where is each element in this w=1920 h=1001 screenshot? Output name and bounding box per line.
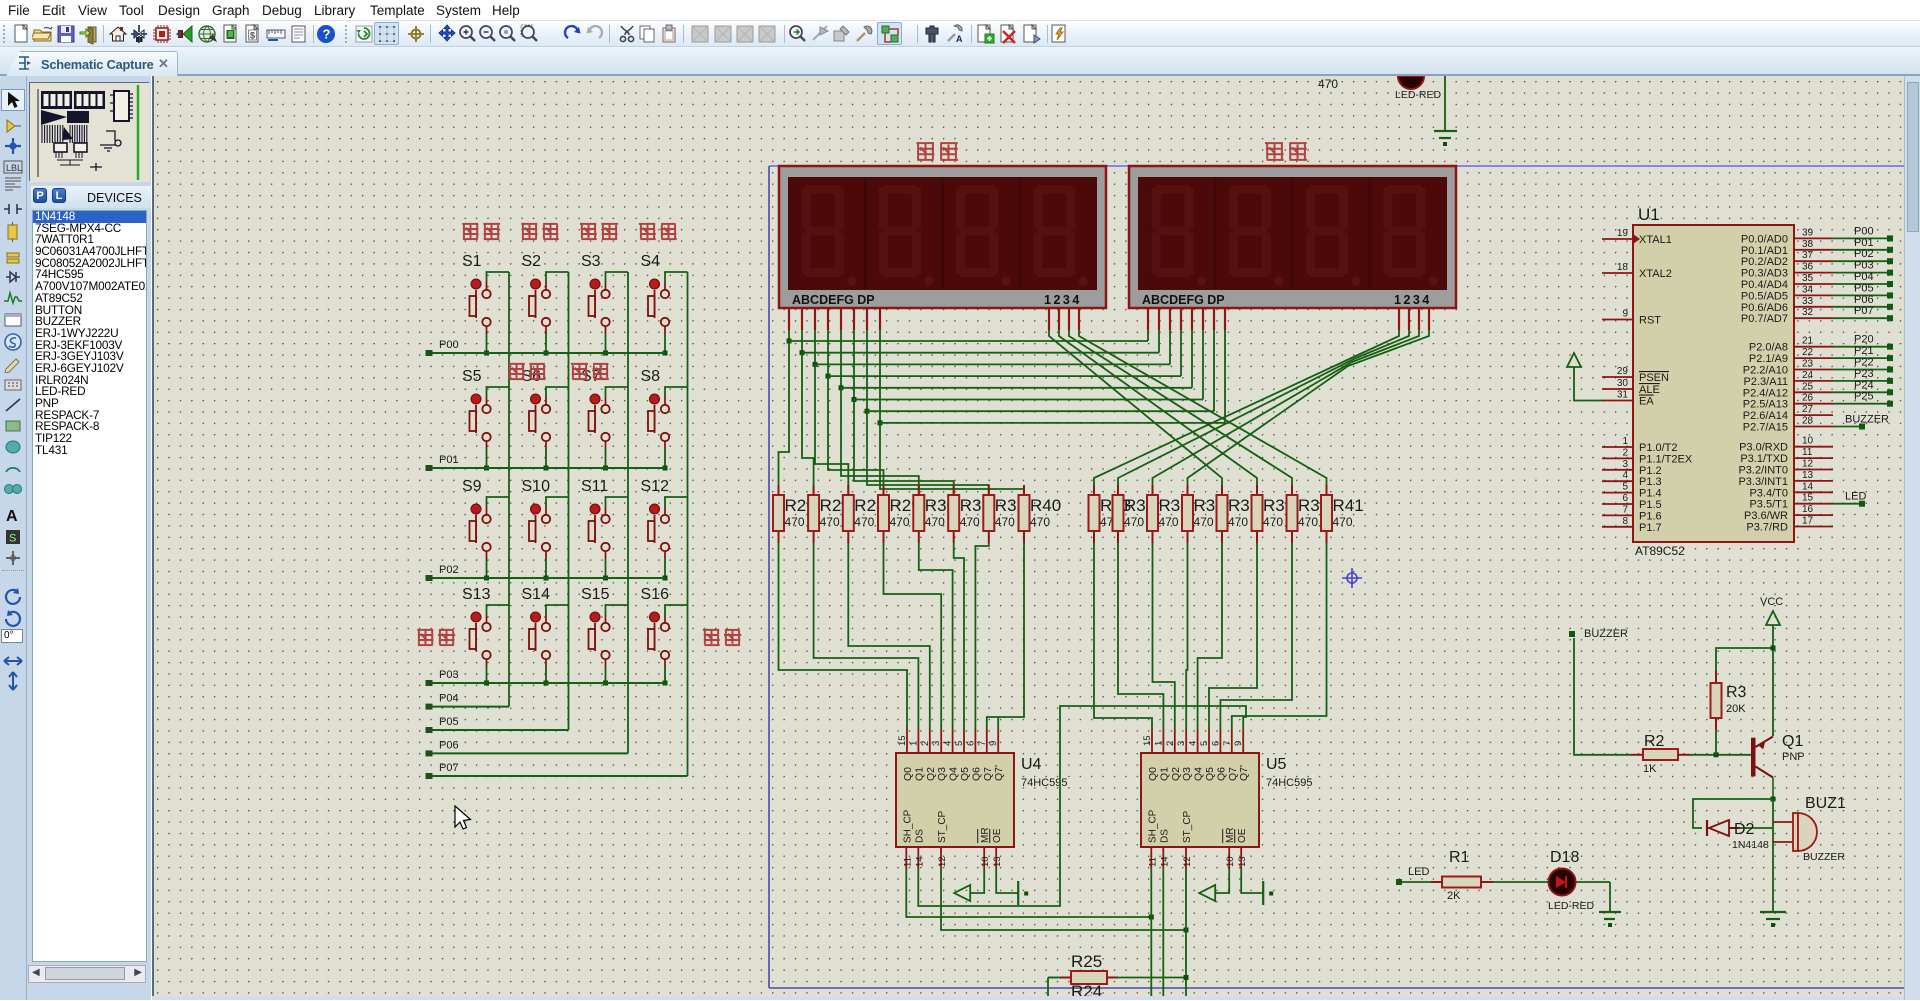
svg-text:13: 13 [1802, 470, 1814, 481]
svg-text:470: 470 [1159, 515, 1179, 529]
svg-text:ABCDEFG DP: ABCDEFG DP [1142, 293, 1225, 307]
svg-text:S11: S11 [581, 478, 608, 495]
svg-text:12: 12 [1182, 856, 1193, 867]
svg-text:P3.1/TXD: P3.1/TXD [1740, 453, 1788, 465]
svg-text:EA: EA [1639, 396, 1654, 408]
svg-text:P03: P03 [1854, 260, 1874, 272]
svg-text:470: 470 [960, 515, 980, 529]
svg-text:470: 470 [925, 515, 945, 529]
svg-text:S4: S4 [641, 253, 661, 270]
svg-text:P05: P05 [439, 716, 459, 728]
svg-text:28: 28 [1802, 416, 1814, 427]
svg-text:P0.3/AD3: P0.3/AD3 [1741, 268, 1788, 280]
svg-text:R3: R3 [1726, 684, 1747, 701]
svg-text:Q7: Q7 [1227, 767, 1239, 781]
svg-text:S12: S12 [641, 478, 670, 495]
svg-text:470: 470 [1333, 515, 1353, 529]
svg-text:P0.6/AD6: P0.6/AD6 [1741, 302, 1788, 314]
svg-text:7: 7 [977, 741, 988, 746]
svg-text:LED: LED [1408, 866, 1429, 878]
svg-text:P2.1/A9: P2.1/A9 [1749, 353, 1788, 365]
svg-text:S14: S14 [522, 586, 551, 603]
svg-text:21: 21 [1802, 336, 1814, 347]
svg-text:BUZZER: BUZZER [1845, 414, 1889, 426]
svg-text:470: 470 [1228, 515, 1248, 529]
svg-text:SH_CP: SH_CP [902, 809, 913, 843]
svg-text:27: 27 [1802, 404, 1814, 415]
svg-text:P07: P07 [439, 762, 459, 774]
svg-text:34: 34 [1802, 284, 1814, 295]
svg-text:P2.4/A12: P2.4/A12 [1743, 387, 1788, 399]
svg-text:24: 24 [1802, 370, 1814, 381]
svg-text:11: 11 [902, 857, 913, 867]
svg-text:16: 16 [1802, 504, 1814, 515]
svg-text:R1: R1 [1449, 849, 1470, 866]
svg-text:DS: DS [914, 829, 925, 843]
svg-text:2K: 2K [1447, 890, 1461, 902]
svg-text:P01: P01 [1854, 237, 1874, 249]
svg-text:470: 470 [1030, 515, 1050, 529]
svg-text:P3.4/T0: P3.4/T0 [1749, 487, 1788, 499]
svg-text:38: 38 [1802, 239, 1814, 250]
svg-text:P0.5/AD5: P0.5/AD5 [1741, 290, 1788, 302]
svg-text:9: 9 [988, 741, 999, 746]
svg-text:5: 5 [1199, 741, 1210, 746]
svg-text:P1.1/T2EX: P1.1/T2EX [1639, 453, 1693, 465]
svg-text:ST_CP: ST_CP [937, 810, 948, 843]
svg-text:PSEN: PSEN [1639, 372, 1669, 384]
svg-text:BUZ1: BUZ1 [1805, 795, 1846, 812]
svg-text:10: 10 [980, 856, 991, 867]
svg-text:8: 8 [1622, 516, 1628, 527]
svg-text:P3.7/RD: P3.7/RD [1746, 522, 1788, 534]
svg-text:23: 23 [1802, 359, 1814, 370]
svg-text:R24: R24 [1071, 982, 1102, 996]
svg-text:P0.1/AD1: P0.1/AD1 [1741, 245, 1788, 257]
svg-text:10: 10 [1802, 436, 1814, 447]
svg-text:10: 10 [1225, 856, 1236, 867]
svg-text:4: 4 [1188, 741, 1199, 746]
svg-text:ST_CP: ST_CP [1182, 810, 1193, 843]
svg-text:470: 470 [1194, 515, 1214, 529]
svg-text:Q5: Q5 [959, 767, 971, 781]
svg-text:LED: LED [1845, 491, 1866, 503]
svg-text:1: 1 [1622, 436, 1628, 447]
svg-text:74HC595: 74HC595 [1266, 777, 1312, 789]
svg-text:S1: S1 [462, 253, 482, 270]
svg-text:P0.0/AD0: P0.0/AD0 [1741, 233, 1788, 245]
svg-text:PNP: PNP [1782, 751, 1805, 763]
svg-text:26: 26 [1802, 393, 1814, 404]
svg-text:LED-RED: LED-RED [1548, 900, 1595, 912]
svg-text:22: 22 [1802, 347, 1814, 358]
svg-text:20K: 20K [1726, 703, 1746, 715]
svg-text:15: 15 [1802, 493, 1814, 504]
svg-text:6: 6 [1210, 741, 1221, 746]
svg-text:18: 18 [1617, 262, 1629, 273]
svg-text:P02: P02 [439, 564, 459, 576]
svg-text:P23: P23 [1854, 368, 1874, 380]
svg-text:2: 2 [1165, 741, 1176, 746]
svg-text:1234: 1234 [1394, 293, 1432, 307]
svg-text:S15: S15 [581, 586, 610, 603]
svg-text:P0.4/AD4: P0.4/AD4 [1741, 279, 1788, 291]
svg-text:P02: P02 [1854, 248, 1874, 260]
svg-text:OE: OE [992, 828, 1003, 843]
svg-text:470: 470 [1263, 515, 1283, 529]
svg-text:14: 14 [914, 856, 925, 867]
svg-text:P24: P24 [1854, 379, 1874, 391]
svg-text:11: 11 [1147, 857, 1158, 867]
svg-text:470: 470 [995, 515, 1015, 529]
svg-text:P1.3: P1.3 [1639, 476, 1662, 488]
svg-text:P1.6: P1.6 [1639, 510, 1662, 522]
svg-text:5: 5 [1622, 482, 1628, 493]
svg-text:P07: P07 [1854, 305, 1874, 317]
svg-text:LED-RED: LED-RED [1395, 89, 1442, 101]
svg-text:1N4148: 1N4148 [1732, 839, 1769, 851]
svg-text:LBL: LBL [6, 163, 22, 173]
svg-text:P04: P04 [439, 693, 459, 705]
svg-text:S10: S10 [522, 478, 551, 495]
svg-text:OE: OE [1237, 828, 1248, 843]
svg-text:U5: U5 [1266, 756, 1287, 773]
svg-text:A: A [6, 508, 18, 525]
svg-text:P2.6/A14: P2.6/A14 [1743, 410, 1788, 422]
svg-text:12: 12 [937, 856, 948, 867]
svg-text:Q5: Q5 [1204, 767, 1216, 781]
svg-text:P06: P06 [1854, 294, 1874, 306]
svg-text:R25: R25 [1071, 952, 1102, 971]
svg-text:33: 33 [1802, 296, 1814, 307]
svg-text:6: 6 [965, 741, 976, 746]
svg-text:7: 7 [1622, 504, 1628, 515]
svg-text:Q2: Q2 [925, 767, 937, 781]
svg-text:A: A [956, 34, 963, 44]
svg-text:P0.2/AD2: P0.2/AD2 [1741, 256, 1788, 268]
svg-text:S3: S3 [581, 253, 601, 270]
svg-text:3: 3 [1176, 741, 1187, 746]
svg-text:470: 470 [1318, 77, 1338, 91]
svg-text:P3.6/WR: P3.6/WR [1744, 510, 1788, 522]
svg-text:Q4: Q4 [948, 767, 960, 781]
svg-text:29: 29 [1617, 366, 1629, 377]
svg-text:P20: P20 [1854, 334, 1874, 346]
svg-text:Q6: Q6 [1215, 767, 1227, 781]
svg-text:Q1: Q1 [1782, 733, 1803, 750]
svg-text:P1.4: P1.4 [1639, 488, 1662, 500]
svg-text:?: ? [323, 27, 331, 42]
svg-text:11: 11 [1802, 447, 1813, 458]
svg-text:U4: U4 [1021, 756, 1042, 773]
svg-text:S13: S13 [462, 586, 491, 603]
svg-text:BUZZER: BUZZER [1584, 628, 1628, 640]
svg-text:AT89C52: AT89C52 [1635, 544, 1685, 558]
svg-text:U1: U1 [1638, 205, 1660, 224]
svg-text:XTAL2: XTAL2 [1639, 268, 1672, 280]
svg-text:470: 470 [854, 515, 874, 529]
svg-text:P3.3/INT1: P3.3/INT1 [1738, 476, 1788, 488]
svg-text:D2: D2 [1734, 821, 1755, 838]
svg-text:13: 13 [1237, 856, 1248, 867]
svg-text:17: 17 [1802, 516, 1814, 527]
svg-text:BUZZER: BUZZER [1803, 851, 1845, 863]
svg-text:S16: S16 [641, 586, 670, 603]
svg-text:$: $ [250, 31, 255, 41]
svg-text:P05: P05 [1854, 282, 1874, 294]
svg-text:32: 32 [1802, 307, 1814, 318]
svg-text:Q0: Q0 [1147, 767, 1159, 781]
svg-text:15: 15 [1142, 735, 1153, 746]
svg-text:S: S [9, 533, 16, 545]
svg-text:9: 9 [1622, 309, 1628, 320]
svg-text:P3.5/T1: P3.5/T1 [1749, 499, 1788, 511]
svg-text:25: 25 [1802, 381, 1814, 392]
svg-text:1K: 1K [1643, 763, 1657, 775]
svg-text:470: 470 [820, 515, 840, 529]
svg-text:2: 2 [920, 741, 931, 746]
svg-text:Q1: Q1 [913, 767, 925, 781]
svg-text:Q0: Q0 [902, 767, 914, 781]
svg-text:P00: P00 [1854, 225, 1874, 237]
svg-text:4: 4 [943, 741, 954, 746]
svg-text:S9: S9 [462, 478, 482, 495]
svg-text:Q7': Q7' [993, 765, 1005, 781]
svg-text:P1.2: P1.2 [1639, 465, 1662, 477]
svg-text:14: 14 [1802, 481, 1814, 492]
svg-text:15: 15 [897, 735, 908, 746]
svg-text:470: 470 [1124, 515, 1144, 529]
svg-text:P00: P00 [439, 339, 459, 351]
svg-text:Q3: Q3 [936, 767, 948, 781]
svg-text:D18: D18 [1550, 849, 1579, 866]
svg-text:P3.2/INT0: P3.2/INT0 [1738, 465, 1788, 477]
svg-text:1234: 1234 [1044, 293, 1082, 307]
svg-text:470: 470 [890, 515, 910, 529]
svg-text:P0.7/AD7: P0.7/AD7 [1741, 313, 1788, 325]
svg-text:DS: DS [1159, 829, 1170, 843]
svg-text:P1.5: P1.5 [1639, 499, 1662, 511]
svg-text:19: 19 [1617, 228, 1629, 239]
svg-text:S2: S2 [522, 253, 542, 270]
svg-text:14: 14 [1159, 856, 1170, 867]
svg-text:S8: S8 [641, 368, 661, 385]
svg-text:Q7': Q7' [1238, 765, 1250, 781]
svg-text:P01: P01 [439, 454, 459, 466]
svg-text:P21: P21 [1854, 345, 1874, 357]
svg-text:9: 9 [1233, 741, 1244, 746]
svg-text:31: 31 [1617, 390, 1629, 401]
svg-text:37: 37 [1802, 250, 1814, 261]
svg-text:36: 36 [1802, 262, 1814, 273]
svg-text:S5: S5 [462, 368, 482, 385]
svg-text:Q3: Q3 [1181, 767, 1193, 781]
svg-text:P22: P22 [1854, 357, 1874, 369]
svg-text:P04: P04 [1854, 271, 1874, 283]
svg-text:P2.2/A10: P2.2/A10 [1743, 365, 1788, 377]
svg-text:P1.7: P1.7 [1639, 522, 1662, 534]
svg-text:P2.3/A11: P2.3/A11 [1744, 376, 1788, 388]
svg-text:R41: R41 [1333, 496, 1364, 515]
svg-text:SH_CP: SH_CP [1147, 809, 1158, 843]
svg-text:470: 470 [785, 515, 805, 529]
svg-text:Q2: Q2 [1170, 767, 1182, 781]
svg-text:P2.0/A8: P2.0/A8 [1749, 342, 1788, 354]
svg-text:ALE: ALE [1639, 384, 1660, 396]
svg-text:P25: P25 [1854, 391, 1874, 403]
svg-text:1: 1 [1153, 741, 1164, 746]
svg-text:P3.0/RXD: P3.0/RXD [1739, 442, 1788, 454]
svg-text:P03: P03 [439, 669, 459, 681]
svg-text:Q7: Q7 [982, 767, 994, 781]
svg-text:ABCDEFG DP: ABCDEFG DP [792, 293, 875, 307]
svg-text:470: 470 [1298, 515, 1318, 529]
svg-text:12: 12 [1802, 459, 1814, 470]
svg-text:Q4: Q4 [1193, 767, 1205, 781]
svg-text:R2: R2 [1644, 733, 1665, 750]
svg-text:13: 13 [992, 856, 1003, 867]
svg-text:R40: R40 [1030, 496, 1061, 515]
svg-text:VCC: VCC [1760, 596, 1783, 608]
svg-text:7: 7 [1222, 741, 1233, 746]
svg-text:5: 5 [954, 741, 965, 746]
svg-text:35: 35 [1802, 273, 1814, 284]
svg-text:RST: RST [1639, 315, 1661, 327]
svg-text:P1.0/T2: P1.0/T2 [1639, 442, 1678, 454]
svg-text:P06: P06 [439, 739, 459, 751]
svg-text:3: 3 [1622, 459, 1628, 470]
svg-text:1: 1 [908, 741, 919, 746]
svg-text:Q1: Q1 [1158, 767, 1170, 781]
svg-text:4: 4 [1622, 470, 1628, 481]
svg-text:P2.7/A15: P2.7/A15 [1743, 422, 1788, 434]
svg-text:30: 30 [1617, 378, 1629, 389]
svg-text:39: 39 [1802, 227, 1814, 238]
svg-text:XTAL1: XTAL1 [1639, 234, 1672, 246]
svg-text:Q6: Q6 [970, 767, 982, 781]
svg-text:3: 3 [931, 741, 942, 746]
svg-text:2: 2 [1622, 447, 1628, 458]
svg-text:6: 6 [1622, 493, 1628, 504]
svg-text:P2.5/A13: P2.5/A13 [1743, 399, 1788, 411]
